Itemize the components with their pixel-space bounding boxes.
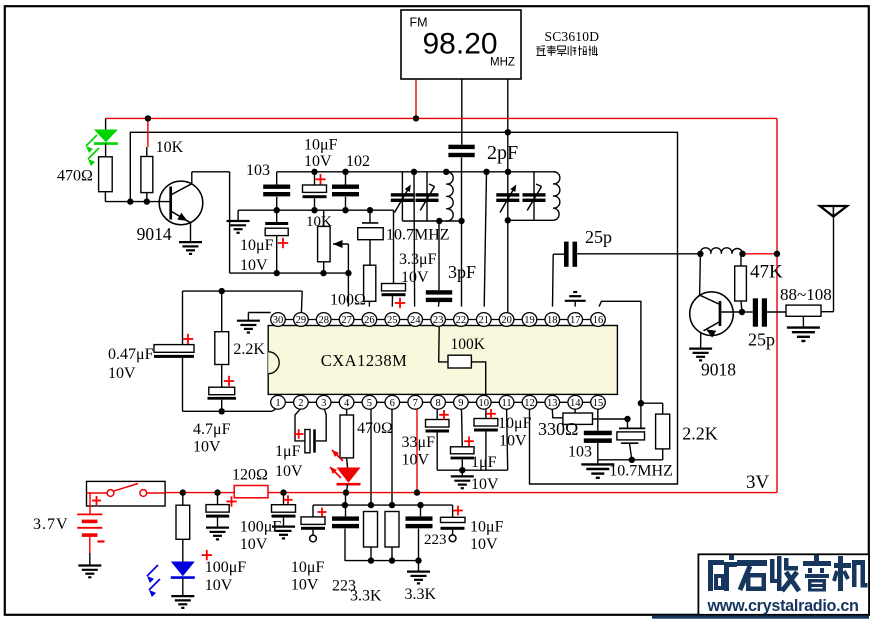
svg-text:10μF: 10μF [498, 415, 532, 432]
svg-text:4: 4 [344, 398, 350, 409]
svg-text:10μF: 10μF [470, 519, 504, 536]
svg-text:23: 23 [433, 315, 444, 326]
svg-text:10K: 10K [306, 214, 332, 230]
svg-text:18: 18 [547, 315, 558, 326]
svg-text:10V: 10V [193, 439, 221, 456]
svg-text:6: 6 [390, 398, 395, 409]
svg-text:100μF: 100μF [240, 519, 282, 536]
svg-text:19: 19 [524, 315, 535, 326]
svg-text:3.7V: 3.7V [33, 516, 69, 533]
svg-text:17: 17 [570, 315, 581, 326]
svg-text:13: 13 [547, 398, 558, 409]
svg-text:30: 30 [273, 315, 284, 326]
svg-text:25: 25 [387, 315, 398, 326]
svg-text:88~108: 88~108 [780, 285, 832, 304]
svg-text:10μF: 10μF [291, 559, 325, 576]
svg-text:SC3610D: SC3610D [545, 29, 600, 44]
svg-text:103: 103 [246, 162, 270, 179]
svg-text:26: 26 [364, 315, 375, 326]
svg-text:5: 5 [367, 398, 372, 409]
svg-text:100Ω: 100Ω [330, 292, 366, 309]
svg-text:10V: 10V [471, 476, 499, 493]
svg-text:33μF: 33μF [402, 434, 436, 451]
svg-text:3V: 3V [746, 472, 770, 493]
svg-text:10V: 10V [470, 536, 498, 553]
svg-text:2.2K: 2.2K [682, 424, 718, 444]
svg-text:25p: 25p [748, 330, 775, 350]
svg-text:470Ω: 470Ω [57, 168, 93, 185]
svg-text:10V: 10V [291, 577, 319, 594]
svg-text:470Ω: 470Ω [357, 420, 393, 437]
svg-text:10.7MHZ: 10.7MHZ [386, 227, 450, 244]
svg-text:98.20: 98.20 [423, 28, 498, 61]
svg-text:21: 21 [479, 315, 490, 326]
svg-text:9014: 9014 [137, 224, 172, 244]
svg-text:10V: 10V [108, 365, 136, 382]
svg-text:10V: 10V [304, 153, 332, 170]
svg-text:102: 102 [346, 153, 370, 170]
svg-text:3.3μF: 3.3μF [399, 251, 437, 268]
svg-text:0.47μF: 0.47μF [108, 346, 154, 363]
svg-text:29: 29 [296, 315, 307, 326]
svg-text:10.7MHZ: 10.7MHZ [609, 463, 673, 480]
svg-text:2.2K: 2.2K [233, 341, 265, 358]
svg-text:3.3K: 3.3K [405, 586, 437, 603]
svg-text:9: 9 [458, 398, 463, 409]
svg-text:8: 8 [435, 398, 440, 409]
svg-text:16: 16 [593, 315, 604, 326]
svg-text:10V: 10V [402, 452, 430, 469]
svg-text:14: 14 [570, 398, 581, 409]
svg-text:330Ω: 330Ω [538, 419, 578, 439]
svg-text:24: 24 [410, 315, 421, 326]
svg-text:12: 12 [524, 398, 535, 409]
svg-text:11: 11 [502, 398, 512, 409]
svg-text:28: 28 [318, 315, 329, 326]
svg-text:10V: 10V [240, 536, 268, 553]
svg-text:10μF: 10μF [304, 137, 338, 154]
svg-text:10V: 10V [499, 433, 527, 450]
svg-text:103: 103 [568, 444, 592, 461]
svg-text:1μF: 1μF [275, 443, 301, 460]
svg-text:4.7μF: 4.7μF [193, 421, 231, 438]
svg-text:3.3K: 3.3K [350, 588, 382, 605]
svg-text:27: 27 [341, 315, 352, 326]
svg-text:100K: 100K [451, 336, 486, 353]
svg-text:25p: 25p [585, 227, 612, 247]
svg-text:100μF: 100μF [205, 559, 247, 576]
svg-text:1: 1 [275, 398, 280, 409]
svg-text:10V: 10V [275, 463, 303, 480]
svg-text:120Ω: 120Ω [232, 467, 268, 484]
svg-text:10μF: 10μF [240, 237, 274, 254]
svg-text:20: 20 [501, 315, 512, 326]
svg-text:10: 10 [479, 398, 490, 409]
svg-text:3pF: 3pF [448, 262, 476, 282]
svg-text:15: 15 [593, 398, 604, 409]
svg-text:CXA1238M: CXA1238M [321, 351, 408, 370]
svg-text:MHZ: MHZ [490, 57, 515, 69]
svg-text:2: 2 [298, 398, 303, 409]
svg-text:www.crystalradio.cn: www.crystalradio.cn [707, 597, 859, 615]
svg-text:10V: 10V [205, 577, 233, 594]
svg-text:22: 22 [456, 315, 467, 326]
svg-text:10K: 10K [156, 139, 184, 156]
svg-text:1μF: 1μF [471, 454, 497, 471]
svg-text:47K: 47K [750, 262, 783, 283]
svg-text:10V: 10V [240, 257, 268, 274]
svg-text:3: 3 [321, 398, 326, 409]
svg-text:7: 7 [413, 398, 418, 409]
svg-text:9018: 9018 [701, 360, 736, 380]
svg-text:223: 223 [424, 532, 447, 548]
svg-text:2pF: 2pF [487, 142, 518, 164]
